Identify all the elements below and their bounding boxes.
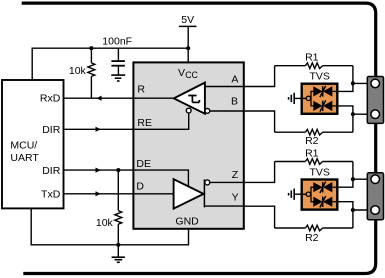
resistor R2 channel2 xyxy=(275,225,353,244)
TVS channel2 xyxy=(289,167,338,210)
ground (capacitor) xyxy=(111,75,125,81)
wire A internal xyxy=(205,86,244,88)
wire RxD to R xyxy=(64,97,174,99)
wire TVS2 lower out xyxy=(338,202,353,210)
svg-text:CC: CC xyxy=(185,70,198,80)
supply 5V xyxy=(179,14,197,62)
svg-text:R1: R1 xyxy=(305,148,319,160)
TVS diode pair upper xyxy=(313,86,338,97)
wire R1 to terminal2a xyxy=(353,162,367,180)
wire Z to channel2 xyxy=(244,162,275,183)
svg-text:DIR: DIR xyxy=(42,165,61,177)
wire TVS1 upper out xyxy=(338,83,353,91)
transceiver IC box xyxy=(133,62,243,228)
junction dot pullup top xyxy=(89,46,93,50)
svg-text:DIR: DIR xyxy=(42,124,61,136)
junction dot 5V/VCC rail xyxy=(186,46,190,50)
op-amp driver (D) xyxy=(174,179,210,208)
arrow on RE wire (right) xyxy=(96,127,101,132)
wire R2 to terminal1b xyxy=(353,114,367,132)
wire B to R2 channel1 xyxy=(244,111,275,132)
svg-text:GND: GND xyxy=(175,216,199,228)
wire DIR to DE xyxy=(64,170,189,187)
resistor 10k pull-up xyxy=(69,48,95,98)
resistor R2 channel1 xyxy=(275,129,353,147)
wire DIR to RE xyxy=(64,113,189,129)
svg-text:R2: R2 xyxy=(305,135,319,147)
svg-text:D: D xyxy=(136,181,144,193)
wire A to channel1 xyxy=(244,66,275,87)
wire Z internal xyxy=(210,181,244,183)
junction dot terminal2a xyxy=(351,177,355,181)
svg-text:RxD: RxD xyxy=(40,92,61,104)
wire TxD to D xyxy=(64,193,174,195)
connector terminal channel2 xyxy=(367,173,383,220)
svg-text:A: A xyxy=(231,74,238,86)
TVS internal branch xyxy=(311,91,314,98)
TVS diode pair lower xyxy=(313,196,338,207)
svg-text:V: V xyxy=(178,67,185,79)
capacitor 100nF xyxy=(102,36,132,75)
svg-text:R: R xyxy=(137,84,145,96)
wire 5V-to-MCU-top rail xyxy=(32,48,188,80)
svg-text:TxD: TxD xyxy=(41,188,61,200)
svg-text:5V: 5V xyxy=(181,14,194,26)
ground (TVS ch1) xyxy=(294,97,306,99)
ground (main) xyxy=(112,245,125,262)
wire MCU bottom to ground rail xyxy=(31,208,188,245)
wire TVS1 lower out xyxy=(338,106,353,114)
arrow on DE wire (right) xyxy=(96,168,101,173)
op-amp receiver (R) xyxy=(174,83,210,114)
wire TVS2 upper out xyxy=(338,179,353,187)
resistor 10k pull-down xyxy=(96,170,122,245)
wire R2 to terminal2b xyxy=(353,210,367,228)
svg-text:10k: 10k xyxy=(96,217,114,229)
wire Y to R2 channel2 xyxy=(244,206,275,228)
junction dot terminal1a xyxy=(351,81,355,85)
wire R1 to terminal1a xyxy=(353,66,367,84)
resistor R1 channel2 xyxy=(275,148,353,165)
TVS diode pair lower xyxy=(313,100,338,111)
wire B internal xyxy=(210,110,244,112)
junction dot ground rail xyxy=(116,243,120,247)
svg-text:UART: UART xyxy=(10,152,39,164)
svg-text:TVS: TVS xyxy=(309,70,329,82)
svg-text:B: B xyxy=(231,95,238,107)
svg-text:TVS: TVS xyxy=(309,167,329,179)
svg-text:R2: R2 xyxy=(305,232,319,244)
svg-text:Y: Y xyxy=(232,191,239,203)
svg-text:100nF: 100nF xyxy=(102,36,132,48)
TVS diode pair upper xyxy=(313,182,338,193)
junction dot terminal1b xyxy=(351,112,355,116)
junction dot terminal2b xyxy=(351,208,355,212)
arrow on R wire (left) xyxy=(96,96,101,101)
TVS channel1 xyxy=(289,70,338,113)
svg-text:DE: DE xyxy=(136,158,151,170)
arrow on D wire (right) xyxy=(96,191,101,196)
wire Y internal xyxy=(204,205,243,207)
resistor R1 channel1 xyxy=(275,52,353,69)
svg-text:R1: R1 xyxy=(305,52,319,64)
junction dot DE/pulldown xyxy=(116,168,120,172)
connector terminal channel1 xyxy=(367,77,383,124)
svg-text:RE: RE xyxy=(137,117,152,129)
TVS internal branch xyxy=(311,187,314,194)
MCU/UART box xyxy=(2,80,64,208)
svg-text:MCU/: MCU/ xyxy=(10,140,37,152)
svg-text:10k: 10k xyxy=(69,65,87,77)
ground (TVS ch2) xyxy=(294,193,306,195)
svg-text:Z: Z xyxy=(232,169,239,181)
